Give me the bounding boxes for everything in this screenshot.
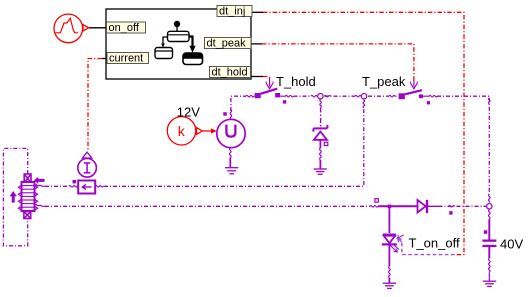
wire purple: thyristor branch bbox=[388, 208, 390, 233]
svg-text:40V: 40V bbox=[500, 237, 523, 252]
rail B (middle purple rail y=186.3) bbox=[45, 108, 364, 186]
emission arrows bbox=[390, 246, 396, 252]
wire red dash-dot: current feedback from sensor to controller bbox=[88, 59, 102, 152]
svg-text:T_on_off: T_on_off bbox=[409, 235, 460, 250]
current sensor: square body with arrow bbox=[78, 181, 95, 194]
wire purple: zener branch from node down bbox=[320, 100, 322, 127]
svg-text:on_off: on_off bbox=[109, 22, 140, 34]
controller block (state machine) bbox=[106, 9, 251, 79]
thyristor T_on_off bbox=[382, 235, 404, 252]
wire red dash-dot: dt_inj to T_on_off gate (right loop) bbox=[263, 12, 464, 254]
state machine icon: state 3 (active, filled header) bbox=[183, 53, 203, 65]
switch T_hold bbox=[255, 89, 287, 104]
zener diode bbox=[313, 125, 327, 146]
marker square left of sensor bbox=[73, 180, 77, 183]
rail C (bottom purple rail y=206.3) bbox=[45, 205, 486, 207]
marker square right of T_hold bbox=[283, 100, 286, 103]
wire black: dt_peak output stub bbox=[251, 43, 262, 45]
state machine icon: state 1 bbox=[168, 31, 190, 41]
marker square above U bbox=[223, 112, 227, 116]
wire purple: U to ground bbox=[230, 148, 232, 167]
wire purple: zener to ground bbox=[320, 140, 322, 169]
state machine icon: thick transition arrow to state 3 bbox=[189, 37, 196, 53]
voltage source U bbox=[217, 119, 245, 147]
wire black: dt_inj output stub bbox=[252, 11, 263, 13]
svg-text:12V: 12V bbox=[177, 105, 200, 120]
svg-text:T_hold: T_hold bbox=[276, 74, 316, 89]
purple arrow into T_peak switch control bbox=[410, 81, 418, 89]
marker square right of diode bbox=[449, 211, 452, 214]
wire red dash-dot: dt_peak to T_peak switch bbox=[262, 44, 414, 81]
marker square right of T_peak bbox=[427, 101, 430, 104]
wire red dash-dot: dt_hold stub bbox=[263, 76, 270, 78]
label dt_hold bbox=[210, 67, 251, 79]
open marker square near zener bbox=[324, 142, 328, 145]
solenoid injector: mechanical loop (left dash-dot rectangle) bbox=[3, 148, 27, 245]
label dt_peak bbox=[205, 38, 252, 50]
svg-text:dt_inj: dt_inj bbox=[219, 6, 245, 18]
label dt_inj bbox=[217, 6, 252, 18]
current sensor: circle with I bbox=[78, 159, 97, 178]
wire black: pulse source to on_off input bbox=[89, 27, 106, 29]
solenoid: thick up arrow bbox=[10, 191, 17, 203]
ground below capacitor bbox=[483, 281, 496, 286]
state machine icon: transition arrow to state 2 bbox=[161, 37, 167, 47]
node junction circle above zener bbox=[318, 94, 323, 99]
solenoid: thick left arrow bbox=[34, 177, 45, 184]
label current bbox=[107, 53, 149, 65]
gate arrow bbox=[398, 235, 404, 239]
junction dot bbox=[388, 205, 392, 209]
solenoid: side coil bumps bbox=[18, 185, 37, 210]
svg-text:T_peak: T_peak bbox=[362, 74, 406, 89]
wire black: dt_hold output stub bbox=[251, 76, 264, 78]
ground below thyristor bbox=[383, 283, 396, 288]
svg-text:current: current bbox=[109, 53, 143, 65]
purple arrow into T_hold switch control bbox=[266, 77, 274, 89]
solenoid: top terminal square with X bbox=[24, 174, 31, 183]
node junction circle above loop corner bbox=[361, 94, 366, 99]
solid segment through junction bbox=[378, 205, 418, 207]
ground below U bbox=[225, 168, 238, 174]
svg-text:dt_peak: dt_peak bbox=[207, 38, 247, 50]
state machine icon: state 2 bbox=[155, 48, 173, 59]
capacitor branch: node to plates bbox=[489, 210, 491, 240]
state machine icon: initial state dot bbox=[174, 21, 180, 27]
svg-text:k: k bbox=[178, 123, 186, 139]
svg-text:dt_hold: dt_hold bbox=[212, 67, 248, 79]
wire purple: thyristor to ground bbox=[389, 244, 391, 282]
marker square left of capacitor bbox=[484, 230, 487, 234]
purple dashed gate wire bbox=[402, 242, 455, 255]
rail A squiggles bbox=[230, 95, 490, 202]
solenoid: right connection squiggles bbox=[35, 185, 46, 207]
ground below zener bbox=[314, 169, 327, 174]
current sensor: output triangle bbox=[82, 152, 91, 158]
capacitor 40V bbox=[482, 240, 496, 248]
label on_off bbox=[107, 22, 146, 34]
freewheeling diode (horizontal) bbox=[418, 200, 428, 213]
constant block k (12V) bbox=[167, 117, 216, 145]
node junction circle at capacitor top bbox=[487, 204, 492, 209]
switch T_peak bbox=[399, 90, 430, 104]
pulse source (red signal generator) bbox=[54, 14, 89, 43]
solenoid: coil body bbox=[22, 182, 35, 211]
solenoid: bottom terminal square with X bbox=[24, 212, 31, 219]
open marker square left of junction bbox=[375, 199, 378, 202]
wire purple: capacitor to ground bbox=[489, 247, 491, 281]
wire black: current input stub bbox=[102, 58, 107, 60]
rail A (top purple rail y=96.2) dash-dot segments bbox=[231, 96, 489, 194]
